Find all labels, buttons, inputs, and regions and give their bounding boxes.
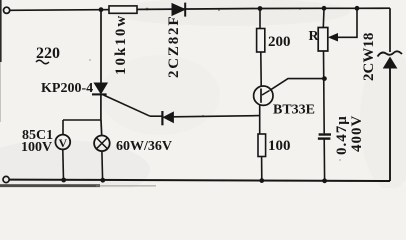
resistor 200 xyxy=(257,29,265,53)
node dot emitter xyxy=(322,76,327,81)
wire right branch down xyxy=(389,8,391,52)
svg-text:V: V xyxy=(59,136,68,150)
voltmeter PV 85C1 xyxy=(55,135,70,150)
thyristor KP200-4 xyxy=(92,83,107,94)
svg-text:60W/36V: 60W/36V xyxy=(116,139,172,154)
wire 100 to bottom xyxy=(261,157,263,181)
svg-text:2CZ82F: 2CZ82F xyxy=(166,15,182,78)
wire pot top xyxy=(322,8,325,27)
node junction top at SCR branch xyxy=(99,7,104,12)
wire capacitor to bottom xyxy=(323,139,325,181)
wire diode to B1 xyxy=(173,116,259,117)
resistor 100 xyxy=(258,134,266,157)
diode D2 gate xyxy=(162,111,173,125)
svg-text:R: R xyxy=(309,29,320,44)
svg-text:100: 100 xyxy=(268,138,291,154)
node dot bottom R3 xyxy=(259,178,264,183)
node dot top pot branch xyxy=(322,6,327,11)
potentiometer R xyxy=(318,28,328,52)
svg-text:400V: 400V xyxy=(349,115,365,152)
wire emitter xyxy=(270,79,325,91)
node dot bottom cap xyxy=(322,178,327,183)
svg-text:10k10w: 10k10w xyxy=(113,14,129,75)
node dot wiper top xyxy=(355,6,360,11)
capacitor C 0.47u xyxy=(318,135,331,139)
wire 200 branch top xyxy=(259,9,261,29)
svg-text:200: 200 xyxy=(268,34,291,50)
wire SCR anode xyxy=(100,10,102,84)
svg-text:0.47μ: 0.47μ xyxy=(334,115,350,155)
wire zener to bottom xyxy=(389,68,391,181)
svg-text:220: 220 xyxy=(36,45,60,62)
node dot bottom lamp xyxy=(100,178,105,183)
wire gate diagonal xyxy=(104,95,151,116)
wire SCR cathode xyxy=(100,95,102,121)
terminal bottom-left xyxy=(3,176,9,182)
wire gate to diode xyxy=(150,115,162,117)
svg-text:KP200-4: KP200-4 xyxy=(41,81,93,96)
wire lamp top xyxy=(100,120,103,136)
diode 2CZ82F xyxy=(172,3,185,17)
resistor 10k10w xyxy=(109,6,137,13)
wiper arrow xyxy=(329,8,357,41)
svg-text:2CW18: 2CW18 xyxy=(361,33,377,81)
svg-text:100V: 100V xyxy=(21,140,52,155)
wire top main xyxy=(10,8,390,10)
svg-text:BT33E: BT33E xyxy=(273,103,315,118)
wire 200 to B2 xyxy=(260,52,262,86)
zener 2CW18 xyxy=(378,51,403,68)
wire B1 down xyxy=(259,105,261,134)
tilde AC mark xyxy=(36,60,49,64)
transistor BT33E UJT xyxy=(254,86,273,105)
wire bottom main xyxy=(9,180,390,181)
wire branch to voltmeter xyxy=(63,119,101,121)
node dot bottom voltmeter xyxy=(61,178,66,183)
node dot top 200 branch xyxy=(258,6,263,11)
wire lamp to bottom xyxy=(101,151,104,180)
lamp EL 60W xyxy=(94,136,110,152)
terminal top-left xyxy=(4,7,10,13)
wire voltmeter to bottom xyxy=(62,149,65,180)
wire pot to capacitor xyxy=(323,51,326,133)
